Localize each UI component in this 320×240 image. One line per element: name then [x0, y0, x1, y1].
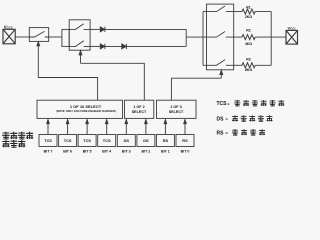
register bit7 box: [39, 135, 57, 147]
diode D3: [122, 44, 127, 49]
wire R1 row left: [234, 11, 242, 13]
switch box S2: [69, 20, 90, 50]
svg-text:BIT 2: BIT 2: [142, 150, 151, 154]
diode D2: [100, 44, 105, 49]
label register name CJK line1: [2, 132, 33, 139]
svg-text:TCS: TCS: [103, 138, 111, 143]
svg-text:TCS: TCS: [44, 138, 52, 143]
bit number labels: [44, 150, 190, 154]
label VCC1: [288, 27, 297, 31]
svg-text:R3: R3: [246, 58, 251, 62]
register labels: [44, 138, 188, 143]
arrow into S2: [79, 51, 82, 64]
bus node: [270, 12, 272, 66]
switch S3b: [207, 31, 234, 37]
svg-text:BIT 1: BIT 1: [161, 150, 170, 154]
svg-text:VCC1: VCC1: [288, 27, 297, 31]
wire pad to switch S1: [15, 36, 29, 38]
svg-text:BIT 3: BIT 3: [122, 150, 131, 154]
switch box S1: [29, 28, 48, 42]
svg-text:2KΩ: 2KΩ: [245, 15, 252, 19]
svg-text:DS: DS: [143, 138, 149, 143]
legend DS: [217, 116, 229, 122]
svg-text:1 OF 3: 1 OF 3: [170, 105, 181, 109]
svg-text:R2: R2: [246, 28, 251, 32]
svg-text:DS: DS: [217, 117, 225, 123]
legend RS: [217, 130, 229, 136]
wire between diodes: [105, 45, 122, 47]
svg-text:BIT 4: BIT 4: [102, 150, 111, 154]
label 1 OF 3 SELECT: [169, 105, 184, 114]
diode D1: [100, 27, 105, 32]
wire bottom branch cont: [126, 45, 186, 47]
wire top branch cont: [105, 28, 186, 30]
register bit3 box: [117, 135, 135, 147]
svg-text:SELECT: SELECT: [132, 110, 147, 114]
arrow bit5: [86, 120, 89, 135]
svg-text:TCS: TCS: [83, 138, 91, 143]
svg-text:(NOTE: ONLY 1010 CODE ENABLED: (NOTE: ONLY 1010 CODE ENABLED CHARGER): [56, 109, 115, 113]
wire control A: [38, 78, 97, 101]
resistor R1: [242, 9, 255, 14]
label R1: [246, 5, 251, 9]
svg-text:RS: RS: [182, 138, 188, 143]
svg-text:TCS: TCS: [217, 101, 228, 107]
arrow bit6: [66, 120, 69, 135]
resistor R3: [242, 63, 255, 68]
switch S3c: [207, 60, 234, 66]
decoder 1 OF 2 SELECT: [125, 100, 154, 118]
wire R3 row right: [255, 64, 271, 66]
decoder 1 OF 16 SELECT: [37, 100, 123, 118]
arrow bit2: [145, 120, 148, 135]
wire S1 to splitter: [49, 36, 62, 38]
arrow bit4: [105, 120, 108, 135]
register bit1 box: [156, 135, 174, 147]
switch S2a: [69, 24, 90, 30]
wire R2 row left: [234, 36, 242, 38]
label R3: [246, 58, 251, 62]
register bit0 box: [176, 135, 194, 147]
wire top branch: [90, 28, 100, 30]
register bit4 box: [98, 135, 116, 147]
svg-text:RS: RS: [217, 131, 225, 137]
register bit2 box: [137, 135, 155, 147]
arrow into S1: [37, 42, 40, 78]
decoder 1 OF 3 SELECT: [157, 100, 197, 118]
svg-text:1 OF 2: 1 OF 2: [133, 105, 144, 109]
svg-text:RS: RS: [163, 138, 169, 143]
svg-text:VCC2: VCC2: [4, 25, 13, 30]
arrow bit7: [47, 120, 50, 135]
svg-text:=: =: [226, 130, 229, 135]
wire R2 row right: [255, 36, 286, 38]
label R3 value 8K: [245, 68, 252, 72]
switch box S3: [207, 4, 234, 70]
legend DS CJK: [232, 115, 272, 121]
splitter bar B1: [62, 29, 69, 46]
svg-text:BIT 7: BIT 7: [44, 150, 53, 154]
switch S2b: [69, 41, 90, 47]
svg-text:BIT 5: BIT 5: [83, 150, 92, 154]
svg-text:TCS: TCS: [64, 138, 72, 143]
svg-text:SELECT: SELECT: [169, 110, 184, 114]
wire control C: [171, 78, 221, 100]
svg-text:BIT 6: BIT 6: [63, 150, 72, 154]
legend TCS CJK: [234, 100, 284, 106]
arrow into S3: [220, 70, 223, 78]
svg-text:1 OF 16 SELECT: 1 OF 16 SELECT: [70, 104, 102, 109]
label register name CJK line2: [2, 140, 25, 147]
resistor R2: [242, 35, 255, 40]
wire R3 row left: [234, 64, 242, 66]
label 1 OF 2 SELECT: [132, 105, 147, 114]
wire control B: [81, 63, 145, 100]
label VCC2: [4, 25, 13, 30]
label R2 value 4K: [245, 42, 252, 46]
merge bar node: [185, 29, 187, 46]
svg-text:4KΩ: 4KΩ: [245, 42, 252, 46]
arrow bit3: [125, 120, 128, 135]
legend RS CJK: [232, 129, 265, 135]
register bit5 box: [78, 135, 96, 147]
svg-text:R1: R1: [246, 5, 251, 9]
svg-text:DS: DS: [124, 138, 130, 143]
svg-text:8KΩ: 8KΩ: [245, 68, 252, 72]
pad VCC2: [3, 29, 15, 44]
svg-text:=: =: [226, 116, 229, 121]
wire bottom branch: [90, 45, 100, 47]
label 1 OF 16 SELECT: [56, 104, 115, 113]
arrow bit1: [164, 120, 167, 135]
svg-text:=: =: [227, 101, 230, 106]
arrow bit0: [184, 120, 187, 135]
register bit6 box: [59, 135, 77, 147]
wire merge to selector: [186, 36, 206, 38]
pad VCC1: [286, 30, 298, 44]
switch S3a: [207, 6, 234, 12]
splitter bar B2: [203, 12, 207, 66]
wire R1 row right: [255, 11, 271, 13]
label R2: [246, 28, 251, 32]
svg-text:BIT 0: BIT 0: [181, 150, 190, 154]
label R1 value 2K: [245, 15, 252, 19]
legend TCS: [217, 101, 231, 107]
switch S1 contacts: [29, 31, 48, 37]
